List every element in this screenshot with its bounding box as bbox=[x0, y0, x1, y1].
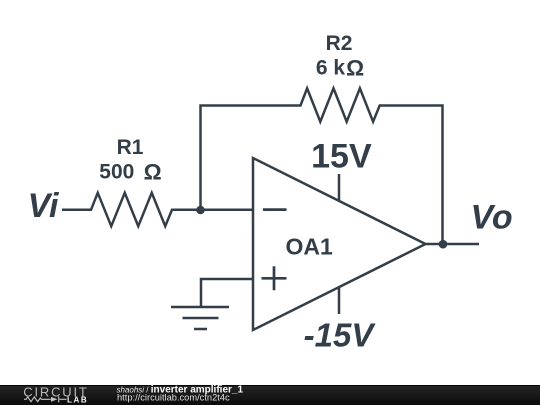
svg-text:http://circuitlab.com/ctn2t4c: http://circuitlab.com/ctn2t4c bbox=[117, 393, 230, 403]
svg-text:LAB: LAB bbox=[67, 395, 88, 404]
